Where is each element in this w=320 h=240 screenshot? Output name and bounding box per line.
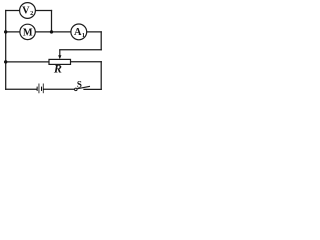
switch S bbox=[75, 79, 90, 90]
wire right vertical upper bbox=[100, 32, 102, 50]
wire top branch to voltmeter bbox=[6, 10, 52, 12]
wire bottom rail left of battery bbox=[6, 88, 37, 90]
svg-text:M: M bbox=[23, 27, 33, 38]
wire left vertical rail bbox=[5, 11, 7, 90]
node junction dot left at motor branch bbox=[4, 30, 7, 33]
wire right side of parallel section bbox=[51, 11, 53, 32]
wire bottom rail battery to switch bbox=[44, 88, 75, 90]
wire bottom rail right of switch bbox=[84, 88, 101, 90]
svg-text:V: V bbox=[22, 6, 30, 17]
battery cell 2 short plate bbox=[41, 87, 43, 91]
wire rheostat left terminal bbox=[6, 61, 49, 63]
battery cell 1 short plate bbox=[36, 87, 38, 91]
battery cell 1 long plate bbox=[38, 84, 40, 94]
node junction dot left at rheostat branch bbox=[4, 60, 7, 63]
wire from node to ammeter and right rail bbox=[52, 31, 102, 33]
svg-text:R: R bbox=[53, 62, 62, 76]
wire rheostat right terminal bbox=[71, 61, 102, 63]
svg-text:S: S bbox=[77, 79, 82, 89]
battery cell 2 long plate bbox=[42, 84, 44, 94]
rheostat R body bbox=[49, 59, 71, 64]
node junction dot right of parallel section bbox=[50, 30, 53, 33]
wire right vertical lower bbox=[100, 62, 102, 90]
svg-text:2: 2 bbox=[30, 10, 33, 17]
rheostat R slider arrow bbox=[58, 50, 61, 60]
svg-text:1: 1 bbox=[82, 32, 85, 39]
wire motor branch bbox=[6, 31, 52, 33]
voltmeter V2 bbox=[20, 3, 36, 19]
motor M bbox=[20, 24, 35, 39]
svg-text:A: A bbox=[74, 27, 82, 38]
wire slider feed horizontal bbox=[60, 49, 101, 51]
ammeter A1 bbox=[71, 24, 87, 40]
